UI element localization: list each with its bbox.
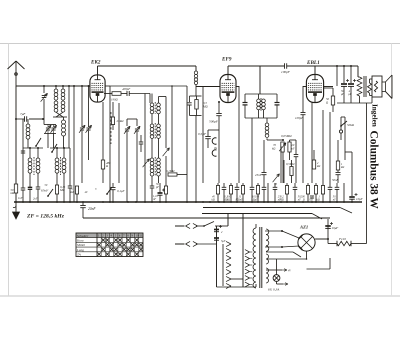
svg-text:5μF: 5μF <box>221 240 226 243</box>
svg-text:nF: nF <box>333 199 336 202</box>
svg-text:EF9: EF9 <box>221 57 232 63</box>
svg-text:10μF: 10μF <box>332 226 339 230</box>
svg-text:kΩ: kΩ <box>317 165 320 168</box>
svg-text:Lang: Lang <box>76 248 84 252</box>
svg-text:kΩ: kΩ <box>212 199 215 202</box>
svg-text:EK2: EK2 <box>90 60 101 66</box>
svg-text:25kΩ: 25kΩ <box>117 119 125 123</box>
svg-text:500pF: 500pF <box>209 120 219 124</box>
svg-text:Ω: Ω <box>303 199 305 202</box>
svg-text:10μF: 10μF <box>356 197 363 201</box>
svg-text:MΩ: MΩ <box>278 199 283 202</box>
svg-text:nF: nF <box>298 199 301 202</box>
svg-text:kΩ: kΩ <box>310 199 313 202</box>
svg-text:25nF: 25nF <box>255 173 262 177</box>
svg-text:65nF: 65nF <box>41 189 49 193</box>
svg-text:50kΩ: 50kΩ <box>347 123 355 127</box>
svg-text:MΩ: MΩ <box>234 199 239 202</box>
svg-text:MΩ: MΩ <box>59 188 65 192</box>
svg-text:pF: pF <box>155 186 159 189</box>
svg-text:4V: 4V <box>288 270 291 273</box>
svg-text:nF: nF <box>292 148 295 151</box>
svg-text:Columbus 38 W: Columbus 38 W <box>368 131 380 210</box>
svg-text:Fe10: Fe10 <box>338 237 346 241</box>
svg-text:kΩ: kΩ <box>272 147 275 151</box>
svg-text:nF: nF <box>153 198 156 201</box>
svg-text:Schalter: Schalter <box>77 234 89 238</box>
svg-text:Kurz: Kurz <box>76 239 84 243</box>
svg-text:1nF: 1nF <box>18 197 23 200</box>
svg-text:100pF: 100pF <box>281 70 291 74</box>
svg-text:400pF: 400pF <box>122 87 130 91</box>
svg-text:100pF: 100pF <box>295 116 303 120</box>
svg-text:kΩ: kΩ <box>252 199 255 202</box>
svg-text:MΩ: MΩ <box>222 199 227 202</box>
svg-text:kΩ: kΩ <box>341 166 344 169</box>
svg-text:Ingelen: Ingelen <box>371 104 379 127</box>
svg-text:AZ1: AZ1 <box>299 225 308 230</box>
svg-text:kΩ: kΩ <box>317 199 320 202</box>
svg-text:190Ω: 190Ω <box>111 98 119 102</box>
svg-text:7μF: 7μF <box>20 112 26 116</box>
svg-text:50nF: 50nF <box>332 178 339 182</box>
svg-text:70: 70 <box>274 182 278 186</box>
svg-text:20nF: 20nF <box>88 207 96 211</box>
svg-text:EBL1: EBL1 <box>306 60 320 66</box>
svg-text:Mittel: Mittel <box>76 243 85 247</box>
svg-text:ZF = 128,5 kHz: ZF = 128,5 kHz <box>26 214 65 220</box>
svg-text:2nF: 2nF <box>33 198 38 201</box>
